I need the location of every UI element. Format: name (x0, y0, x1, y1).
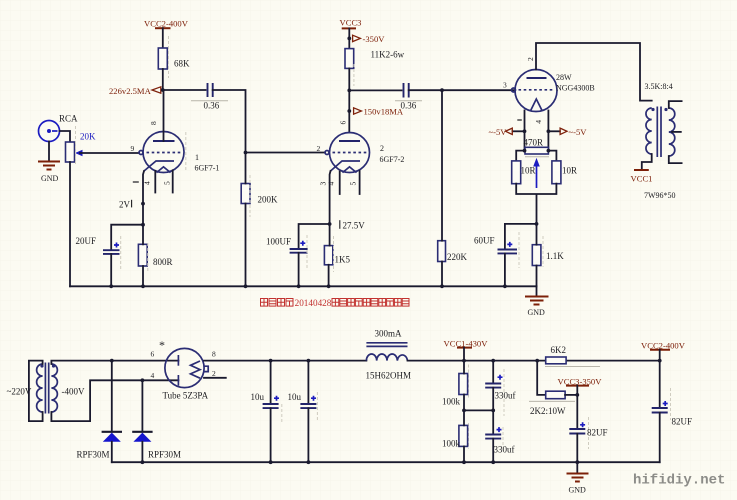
triode V2 6GF7-2 (317, 121, 370, 173)
pin label 3 V2 (319, 182, 328, 186)
svg-text:VCC1: VCC1 (631, 174, 653, 184)
wire pot bottom to ground rail (69, 162, 71, 286)
svg-text:1.1K: 1.1K (546, 251, 564, 261)
triode V1 6GF7-1 (131, 121, 185, 173)
svg-text:RPF30M: RPF30M (77, 450, 110, 460)
svg-text:2: 2 (317, 144, 321, 153)
svg-text:-400V: -400V (62, 387, 85, 397)
pin label 4 V2 (327, 182, 336, 186)
junction psu rail 10u 1 (269, 460, 273, 464)
annotation red note 老驾新编20140428修改成此电路的工作点 (261, 298, 410, 308)
svg-text:28W: 28W (556, 73, 572, 82)
svg-text:20UF: 20UF (76, 236, 97, 246)
svg-text:150v18MA: 150v18MA (364, 107, 404, 117)
svg-text:0.36: 0.36 (204, 101, 220, 111)
svg-text:6GF7-2: 6GF7-2 (380, 155, 405, 164)
wire RCA to ground (48, 142, 50, 162)
ground GND (psu) (567, 462, 589, 494)
wire secondary bottom to rectifier filament (51, 380, 178, 421)
junction psu rail 330uf (491, 460, 495, 464)
wire secondary top to rectifier filament (51, 361, 178, 364)
power port VCC1-430V (444, 339, 489, 363)
node ~-5V left (489, 127, 527, 137)
svg-text:100UF: 100UF (266, 237, 291, 247)
svg-text:330uf: 330uf (495, 391, 516, 401)
svg-text:800R: 800R (153, 257, 173, 267)
svg-text:2K2:10W: 2K2:10W (530, 406, 566, 416)
svg-text:470R: 470R (524, 138, 544, 148)
resistor 1K5 (324, 246, 350, 265)
wire node to 200K and 200K to ground rail (245, 153, 247, 287)
svg-text:hifidiy.net: hifidiy.net (633, 473, 725, 489)
wire to 60UF (505, 224, 537, 249)
svg-text:3: 3 (503, 81, 507, 90)
wire 10R bottoms to cathode bus (516, 184, 556, 224)
junction cathode branch V1 (141, 223, 145, 227)
wire V1 plate to node (163, 90, 165, 141)
capacitor 0.36 (interstage 2) (395, 83, 422, 111)
node 27.5V cathode V2 (328, 220, 366, 230)
node 150v18MA (347, 107, 404, 117)
resistor 10R right (552, 161, 577, 184)
capacitor 10u (2) (288, 361, 317, 463)
svg-text:8: 8 (212, 350, 216, 359)
svg-text:82UF: 82UF (587, 428, 608, 438)
wire 68K to node (162, 69, 164, 90)
wire branch to 100UF (299, 224, 330, 249)
junction rail 60UF (503, 284, 507, 288)
svg-text:6: 6 (151, 350, 155, 359)
pin label 1 V3 (517, 119, 522, 121)
svg-text:4: 4 (534, 120, 543, 124)
resistor 470R (523, 138, 551, 155)
wire C 0.36 to V3 grid (409, 89, 515, 91)
svg-text:15H62OHM: 15H62OHM (366, 371, 412, 381)
pin label 5 V1 (163, 181, 172, 185)
wire secondary center tap (672, 131, 681, 133)
svg-text:9: 9 (131, 144, 135, 153)
junction divider mid (462, 409, 466, 413)
diode D2 RPF30M (132, 380, 181, 462)
wire branch down to 2K2 (537, 361, 546, 395)
junction plate node V2 (347, 89, 351, 93)
svg-text:10u: 10u (288, 392, 302, 402)
svg-text:10R: 10R (521, 166, 536, 176)
svg-text:60UF: 60UF (474, 236, 495, 246)
wire bus to 1.1K and 1.1K to ground (536, 224, 538, 286)
svg-text:GND: GND (41, 174, 59, 183)
svg-text:5: 5 (163, 181, 172, 185)
power transformer 220V/400V (37, 363, 58, 414)
junction rail 800R (141, 284, 145, 288)
svg-text:11K2-6w: 11K2-6w (371, 50, 405, 60)
wire heater right to 470R (548, 131, 556, 161)
wire node to V2 grid pin (246, 152, 326, 154)
wire heater left to 470R (516, 131, 524, 161)
resistor 2K2:10W (529, 391, 575, 416)
pin label 4 V1 (142, 181, 151, 185)
rectifier tube V4 5Z3PA (151, 338, 217, 401)
junction grid node V2 (244, 151, 248, 155)
output transformer 3.5K:8:4 (645, 82, 675, 157)
wire V2 cathode down (329, 171, 332, 224)
svg-text:*: * (159, 338, 165, 352)
junction diode D1 top (110, 359, 114, 363)
wire secondary top terminal (669, 101, 682, 108)
wire RCA to potentiometer (60, 131, 71, 142)
svg-text:8: 8 (149, 121, 158, 125)
capacitor 10u (1) (251, 361, 280, 463)
svg-text:20K: 20K (80, 132, 96, 142)
svg-text:~-5V: ~-5V (489, 127, 508, 137)
wire grid node to 220K and 220K to ground rail (441, 90, 443, 286)
capacitor 82UF (VCC2) (652, 361, 692, 463)
choke 300mA 15H62OHM (366, 329, 412, 381)
resistor 1.1K (532, 245, 564, 266)
svg-text:2V: 2V (119, 200, 131, 210)
svg-text:3.5K:8:4: 3.5K:8:4 (645, 82, 673, 91)
junction 220K top (440, 88, 444, 92)
svg-text:VCC2-400V: VCC2-400V (144, 19, 189, 29)
junction psu rail 10u 2 (307, 460, 311, 464)
node 226v2.5MA (109, 86, 161, 96)
wire 11K2 to plate node V2 (348, 68, 350, 132)
junction 6K2 branch (535, 359, 539, 363)
wire primary loop (29, 361, 43, 422)
junction rail 220K (440, 284, 444, 288)
junction plate node V1 (161, 88, 165, 92)
node ~-5V right (547, 127, 588, 137)
resistor 68K (158, 48, 190, 69)
capacitor 330uf (lower) (485, 410, 514, 462)
junction rail 1K5 (327, 284, 331, 288)
wire divider mid to 330uf mid (464, 409, 493, 411)
svg-text:20140428: 20140428 (295, 298, 332, 308)
wire divider mid to 100k to ground rail (463, 410, 465, 462)
svg-text:226v2.5MA: 226v2.5MA (109, 86, 152, 96)
junction psu rail D2 (141, 460, 145, 464)
ground GND (amplifier) (525, 286, 549, 317)
svg-text:1: 1 (195, 153, 199, 162)
filament pin V3 right (547, 111, 549, 132)
ground rail psu (112, 461, 660, 463)
svg-text:RCA: RCA (59, 114, 78, 124)
wire transformer primary bottom to VCC1 (642, 154, 652, 170)
wire branch to 800R and 800R to ground rail (142, 225, 144, 287)
power port VCC3-350V (558, 377, 603, 395)
junction diode D2 top (141, 378, 145, 382)
svg-text:10R: 10R (562, 166, 577, 176)
resistor 6K2 (545, 345, 600, 367)
ghost artifact lines (76, 36, 671, 452)
node 2V cathode V1 (119, 200, 145, 210)
pin label 1 V1 (133, 181, 139, 183)
wire branch to 20UF (111, 225, 143, 250)
junction filter cap 10u (2) (307, 359, 311, 363)
wire 2K2 to VCC3 node (565, 394, 577, 396)
capacitor 330uf (upper) (485, 361, 515, 413)
svg-text:2: 2 (212, 369, 216, 378)
wire rectifier pin 2 stub (204, 377, 226, 379)
junction psu rail 100k (462, 460, 466, 464)
svg-text:7W96*50: 7W96*50 (644, 191, 676, 200)
svg-text:~-5V: ~-5V (569, 127, 588, 137)
wire rectifier output B+ rail (204, 360, 366, 362)
wire VCC1 node to 100k to divider node (463, 361, 465, 411)
wire 20UF to ground rail (110, 254, 112, 286)
resistor 100k (lower) (442, 425, 468, 448)
wire V3 plate to output transformer (536, 43, 652, 101)
junction VCC3 node (575, 393, 579, 397)
svg-text:2: 2 (526, 57, 535, 61)
potentiometer 20K (66, 132, 97, 163)
svg-text:100k: 100k (442, 397, 461, 407)
resistor 10R left (512, 161, 536, 184)
ground rail top section (70, 285, 537, 287)
svg-text:10u: 10u (251, 392, 265, 402)
power port VCC2-400V (144, 19, 189, 29)
pin label 5 V2 (349, 182, 358, 186)
svg-text:6K2: 6K2 (551, 345, 567, 355)
wire C 0.36 to grid node V2 (213, 90, 246, 153)
junction cathode bus (535, 222, 539, 226)
resistor 100k (upper) (442, 374, 468, 407)
capacitor 60UF (474, 236, 517, 254)
svg-text:2: 2 (380, 144, 384, 153)
RCA input connector (39, 114, 79, 142)
wire VCC2 to R 68K (162, 28, 164, 48)
svg-text:27.5V: 27.5V (343, 221, 366, 231)
wire 27.5V node to 1K5 and 1K5 to ground rail (329, 224, 330, 286)
wire secondary bottom terminal (669, 156, 682, 163)
output tube V3 NGG4300B (503, 57, 595, 112)
junction filter cap 10u (1) (269, 359, 273, 363)
svg-text:NGG4300B: NGG4300B (556, 84, 595, 93)
diode D1 RPF30M (77, 361, 123, 463)
svg-text:RPF30M: RPF30M (148, 450, 181, 460)
svg-text:Tube 5Z3PA: Tube 5Z3PA (163, 391, 209, 401)
svg-text:-350V: -350V (363, 34, 386, 44)
resistor 200K (241, 184, 278, 205)
svg-text:100k: 100k (442, 439, 461, 449)
wire choke to VCC2 node (408, 360, 660, 362)
capacitor 82UF (VCC3) (569, 395, 607, 462)
resistor 220K (438, 241, 468, 262)
svg-text:220K: 220K (447, 252, 468, 262)
hum balance arrow (533, 158, 540, 188)
heater stub pin 4 V1 (154, 171, 156, 193)
node -350V (347, 34, 385, 44)
wire V1 cathode down (143, 171, 144, 225)
svg-text:VCC3: VCC3 (340, 18, 362, 28)
svg-text:300mA: 300mA (375, 329, 403, 339)
svg-text:6: 6 (339, 121, 348, 125)
wire VCC3 to -350V node (348, 28, 350, 48)
wire 100UF to ground rail (298, 253, 300, 286)
wire node to C 0.36 (2) (349, 89, 401, 91)
heater stub pin 5 V2 (359, 171, 361, 194)
svg-text:1K5: 1K5 (335, 255, 351, 265)
svg-text:GND: GND (569, 486, 587, 495)
ground GND (input) (38, 162, 60, 184)
power port VCC2-400V (psu) (641, 341, 686, 363)
svg-text:82UF: 82UF (672, 417, 693, 427)
wire node to C 0.36 (163, 89, 206, 91)
resistor 11K2-6w (345, 49, 405, 69)
junction rail 100UF (297, 284, 301, 288)
svg-text:4: 4 (151, 371, 155, 380)
junction rail 200K (244, 284, 248, 288)
svg-text:6GF7-1: 6GF7-1 (195, 164, 220, 173)
heater stub pin 4 V2 (339, 172, 341, 195)
capacitor 0.36 (interstage 1) (191, 83, 228, 111)
svg-text:4: 4 (327, 182, 336, 186)
power port VCC1 (631, 170, 653, 184)
wire 60UF to ground rail (504, 254, 506, 287)
wire pot wiper to V1 grid pin (80, 152, 139, 154)
heater stub pin 5 V1 (172, 170, 174, 192)
capacitor 20UF (76, 236, 120, 254)
junction rail 20UF (109, 284, 113, 288)
capacitor 100UF (266, 237, 308, 253)
filament pin V3 left (524, 111, 526, 132)
svg-text:68K: 68K (174, 59, 190, 69)
junction psu rail 82UF (575, 460, 579, 464)
junction 330uf top (491, 359, 495, 363)
svg-text:5: 5 (349, 182, 358, 186)
resistor 800R (138, 244, 172, 267)
power port VCC3 (340, 18, 362, 29)
svg-text:330uf: 330uf (494, 445, 515, 455)
svg-text:200K: 200K (258, 195, 279, 205)
svg-text:GND: GND (528, 308, 546, 317)
pin label 4 V3 (534, 120, 543, 124)
